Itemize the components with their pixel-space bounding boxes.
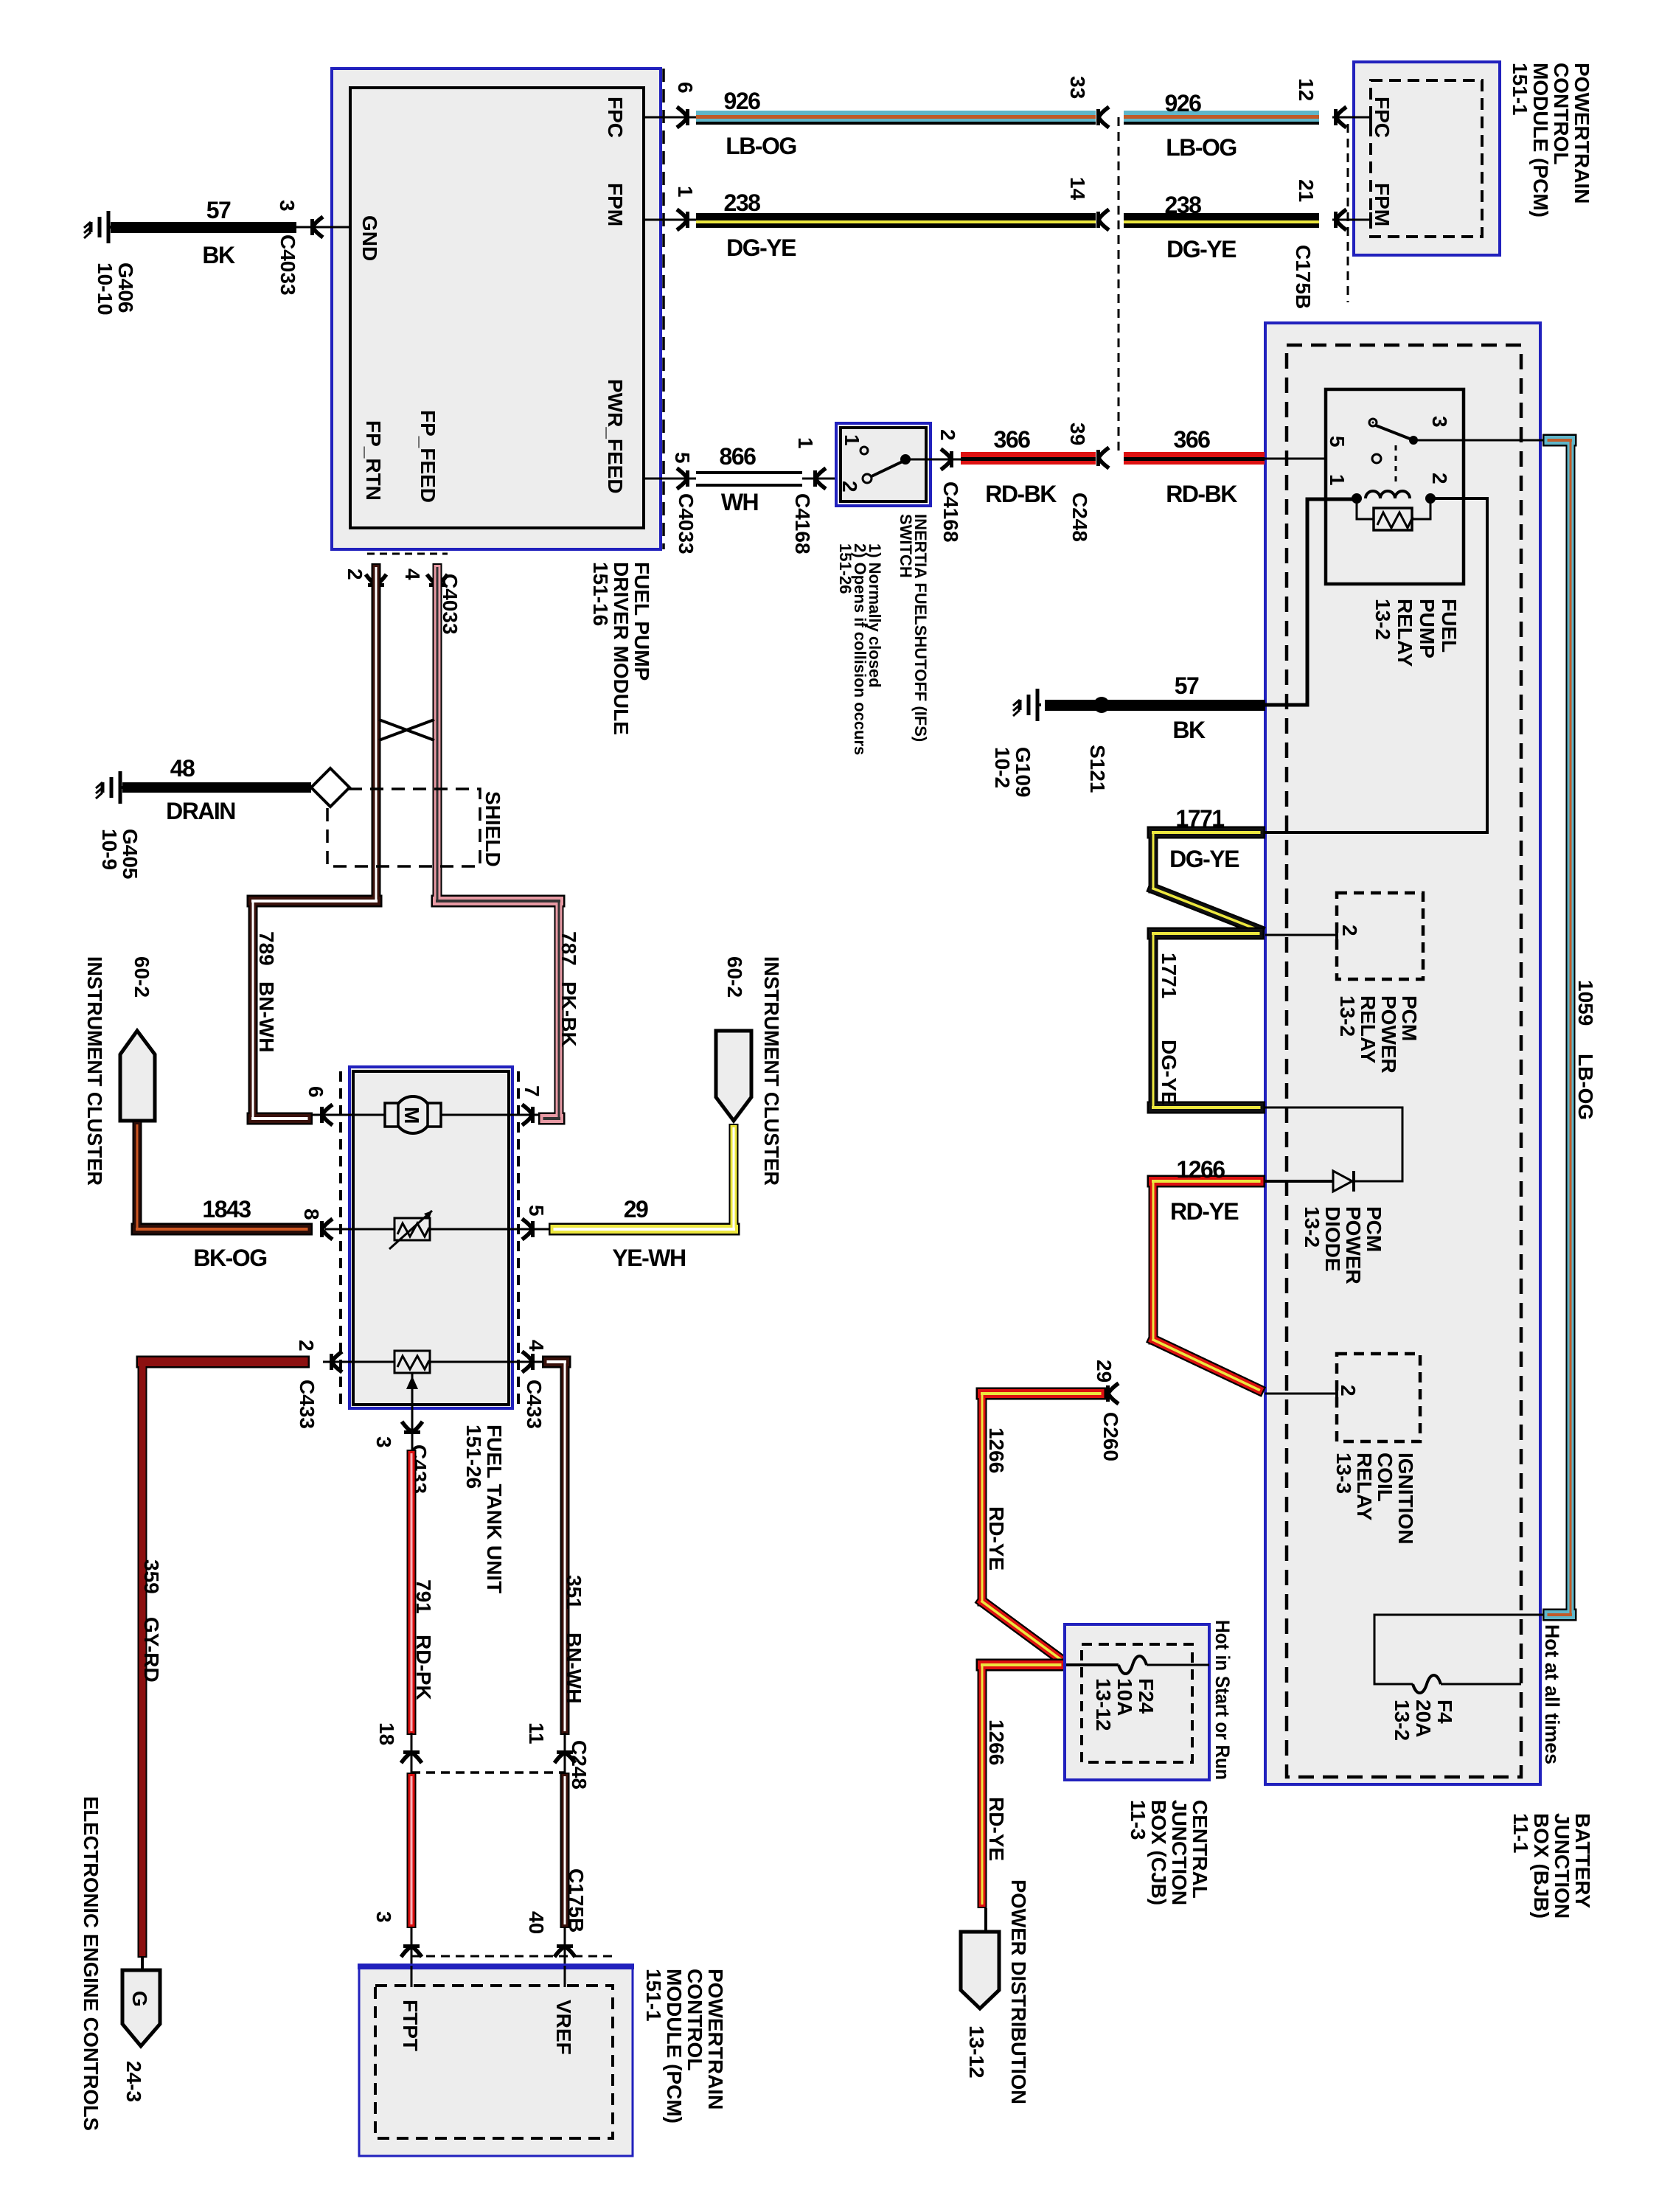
svg-text:Hot at all times: Hot at all times [1541, 1624, 1563, 1764]
PCM power diode [1265, 1180, 1333, 1183]
svg-text:1266: 1266 [985, 1719, 1008, 1765]
tank pin 6 arrow [320, 1105, 333, 1125]
relay coil resistor [1374, 508, 1412, 530]
svg-text:6: 6 [674, 82, 697, 94]
fuel pump relay box [1326, 389, 1464, 584]
svg-text:1: 1 [841, 434, 863, 446]
svg-text:5: 5 [525, 1205, 548, 1217]
svg-text:5: 5 [1326, 436, 1349, 448]
svg-text:2: 2 [936, 429, 959, 441]
drain diamond [311, 768, 349, 807]
wire 1843 BK-OG [133, 1126, 142, 1230]
instrument cluster connector right [716, 1031, 751, 1121]
wire 926 LB-OG segment B [1124, 111, 1319, 122]
FPDM pins 2 and 4 to fuel pump wires [367, 553, 448, 555]
dashed connector line at PCM [1347, 124, 1349, 302]
svg-text:787: 787 [557, 931, 580, 966]
svg-text:BN-WH: BN-WH [255, 981, 278, 1052]
svg-text:60-2: 60-2 [723, 956, 746, 998]
svg-text:C4168: C4168 [939, 481, 962, 543]
pin 1 C4168 arrow [802, 478, 836, 480]
dashed harness line C248/C175B [1118, 117, 1120, 455]
svg-text:238: 238 [724, 189, 761, 216]
wire 791 RD-PK upper [407, 1455, 417, 1731]
dashed connector C248 link [411, 1771, 565, 1774]
svg-text:YE-WH: YE-WH [612, 1245, 685, 1271]
inertia fuel shutoff switch box [836, 423, 931, 506]
svg-text:1843: 1843 [202, 1196, 251, 1222]
PCM pin 12 wire [1332, 116, 1371, 119]
pin 18 C248 arrow [411, 1733, 413, 1773]
wire 926 LB-OG segment A [696, 111, 1096, 122]
wire into relay pin 5 [1265, 458, 1373, 460]
svg-text:866: 866 [720, 443, 757, 470]
svg-text:40: 40 [525, 1911, 548, 1934]
svg-text:7: 7 [521, 1085, 543, 1097]
svg-text:791: 791 [412, 1579, 435, 1614]
pin 29 C260 arrow [1106, 1383, 1119, 1404]
svg-text:3: 3 [372, 1436, 395, 1448]
svg-text:GY-RD: GY-RD [140, 1617, 163, 1683]
svg-text:14: 14 [1066, 177, 1089, 201]
svg-text:1266: 1266 [985, 1427, 1008, 1473]
svg-text:C260: C260 [1099, 1412, 1122, 1461]
pin 3 FTPT arrow [411, 1928, 413, 1966]
svg-text:DG-YE: DG-YE [1166, 236, 1237, 262]
FPM pin 1 wire [644, 219, 696, 221]
svg-text:C4168: C4168 [791, 493, 814, 554]
svg-text:M: M [400, 1107, 423, 1124]
svg-text:3: 3 [1428, 416, 1451, 428]
ground G405 and wire 48 DRAIN [119, 771, 122, 804]
wire 351 BN-WH upper [549, 1356, 566, 1368]
svg-text:1: 1 [674, 186, 697, 198]
svg-text:1: 1 [794, 437, 817, 449]
svg-text:G: G [128, 1991, 151, 2007]
twisted pair symbol [379, 720, 434, 740]
pin 33 connector arrow [1096, 107, 1109, 128]
wire 1266 RD-YE to CJB [982, 1388, 1100, 1400]
svg-text:FPC: FPC [1371, 97, 1394, 138]
svg-text:1059: 1059 [1574, 980, 1597, 1026]
svg-text:DRAIN: DRAIN [166, 798, 235, 824]
fuse F4 [1413, 1675, 1441, 1693]
relay pin 2 wire down to 1771 [1265, 498, 1487, 832]
tank pin 4 arrow [522, 1352, 535, 1372]
svg-text:29: 29 [624, 1196, 648, 1222]
svg-text:RD-YE: RD-YE [1170, 1198, 1239, 1225]
fuel tank pressure sensor [323, 1361, 394, 1363]
wire 1771 DG-YE upper segment [1153, 827, 1259, 839]
fuel tank unit box [339, 1071, 342, 1405]
svg-text:13-12: 13-12 [965, 2025, 988, 2079]
wire 29 YE-WH [729, 1129, 739, 1230]
svg-text:359: 359 [140, 1559, 163, 1594]
fuse F24 [1066, 1663, 1119, 1666]
power distribution connector arrow [984, 1908, 987, 1932]
svg-text:C248: C248 [568, 1740, 591, 1790]
instrument cluster connector left [120, 1031, 155, 1121]
svg-text:4: 4 [401, 568, 424, 580]
svg-text:C433: C433 [523, 1380, 546, 1429]
svg-text:INSTRUMENT CLUSTER: INSTRUMENT CLUSTER [83, 956, 106, 1186]
svg-text:18: 18 [375, 1722, 398, 1745]
svg-text:INSTRUMENT CLUSTER: INSTRUMENT CLUSTER [760, 956, 783, 1186]
tank pin 8 arrow [320, 1219, 333, 1239]
svg-text:RD-YE: RD-YE [985, 1797, 1008, 1861]
svg-text:5: 5 [671, 452, 694, 464]
fuel pump driver module box [332, 69, 661, 549]
svg-text:2: 2 [1428, 473, 1451, 484]
svg-text:351: 351 [563, 1575, 585, 1610]
svg-text:RD-BK: RD-BK [985, 481, 1057, 507]
wire from 1059 to fuse F4 [1374, 1615, 1543, 1684]
svg-text:BK: BK [202, 242, 235, 268]
wire 791 RD-PK lower [407, 1778, 417, 1924]
svg-text:39: 39 [1066, 422, 1089, 445]
svg-text:S121: S121 [1086, 745, 1109, 793]
wire 789 BN-WH [372, 568, 381, 902]
tank pin 7 arrow [522, 1105, 535, 1125]
svg-text:2: 2 [1337, 1385, 1360, 1397]
svg-text:BK: BK [1172, 717, 1206, 743]
dashed connector C175B link [411, 1955, 615, 1958]
svg-text:1: 1 [1326, 474, 1349, 486]
svg-text:FPM: FPM [604, 183, 627, 226]
electronic engine controls connector [141, 1958, 144, 1970]
svg-text:3: 3 [372, 1911, 395, 1923]
svg-text:FPM: FPM [1371, 183, 1394, 226]
svg-text:2: 2 [295, 1340, 318, 1352]
svg-text:DG-YE: DG-YE [726, 234, 796, 261]
svg-text:1771: 1771 [1175, 805, 1224, 832]
svg-text:2: 2 [838, 481, 861, 493]
wire 238 DG-YE segment B [1124, 213, 1319, 228]
wire 1771 to diode loop [1265, 1107, 1402, 1181]
svg-text:LB-OG: LB-OG [1574, 1054, 1597, 1120]
tank pin 2 arrow [330, 1352, 342, 1372]
FPC pin 6 wire [644, 116, 696, 119]
wire 1266 RD-YE inside BJB run [1153, 1175, 1259, 1188]
wire 1266 RD-YE to power distribution [982, 1659, 1060, 1672]
svg-text:6: 6 [305, 1086, 327, 1098]
central junction box CJB [1065, 1624, 1209, 1780]
wire 866 WH [696, 472, 802, 486]
svg-text:RD-BK: RD-BK [1166, 481, 1237, 507]
svg-text:48: 48 [170, 755, 195, 782]
svg-text:1266: 1266 [1176, 1156, 1225, 1183]
svg-text:BN-WH: BN-WH [563, 1632, 585, 1703]
svg-text:2: 2 [344, 568, 366, 580]
relay pin 3 wire to 1059 [1413, 439, 1545, 442]
svg-text:LB-OG: LB-OG [1166, 134, 1237, 161]
svg-text:C175B: C175B [565, 1868, 588, 1933]
svg-text:WH: WH [721, 489, 758, 515]
tank pin 5 arrow [522, 1219, 535, 1239]
wire 366 RD-BK segment B [1124, 452, 1265, 465]
svg-text:926: 926 [724, 88, 761, 114]
svg-text:POWER DISTRIBUTION: POWER DISTRIBUTION [1007, 1879, 1030, 2104]
fuel pump motor [313, 1114, 385, 1116]
svg-text:12: 12 [1295, 78, 1318, 101]
svg-text:GND: GND [358, 215, 381, 261]
connector C4033 dashed line [662, 69, 665, 549]
svg-text:Hot in Start or Run: Hot in Start or Run [1211, 1620, 1234, 1780]
pin 2 C4168 arrow [926, 459, 961, 461]
svg-text:1771: 1771 [1158, 953, 1180, 998]
battery junction box (BJB) outline [1265, 323, 1540, 1784]
svg-text:4: 4 [525, 1340, 548, 1352]
svg-text:FTPT: FTPT [399, 2000, 422, 2051]
svg-text:33: 33 [1066, 76, 1089, 99]
shield dashed box [327, 789, 480, 866]
wire 238 DG-YE segment A [696, 213, 1096, 228]
svg-text:C4033: C4033 [439, 574, 462, 635]
svg-text:926: 926 [1165, 90, 1202, 116]
svg-text:VREF: VREF [552, 2000, 575, 2055]
svg-text:238: 238 [1165, 192, 1202, 218]
tank pin 3 arrow [402, 1422, 422, 1434]
ignition coil relay [1265, 1393, 1337, 1395]
svg-text:11: 11 [525, 1722, 548, 1745]
wire 359 GY-RD [142, 1356, 304, 1368]
svg-text:DG-YE: DG-YE [1169, 846, 1239, 872]
splice S121 [1093, 697, 1110, 713]
ground G406 [107, 211, 111, 243]
svg-text:C248: C248 [1068, 493, 1091, 542]
PCM power relay [1265, 934, 1337, 936]
pin 40 VREF arrow [564, 1928, 566, 1966]
pin 14 connector arrow [1096, 209, 1109, 230]
relay armature dashed link [1395, 445, 1397, 484]
svg-text:789: 789 [255, 931, 278, 966]
svg-text:RD-PK: RD-PK [412, 1635, 435, 1700]
wire 787 PK-BK [433, 568, 442, 902]
ground G109 and wire 57 BK at S121 [1036, 689, 1040, 721]
svg-text:LB-OG: LB-OG [726, 133, 796, 159]
pin 3 C4033 connector arrow [310, 217, 323, 237]
svg-text:3: 3 [276, 200, 299, 212]
PCM top box [1354, 62, 1500, 255]
svg-text:C175B: C175B [1292, 245, 1315, 309]
svg-text:FPC: FPC [604, 97, 627, 138]
svg-text:366: 366 [1174, 426, 1211, 453]
IFS switch blade [872, 460, 905, 476]
svg-text:60-2: 60-2 [131, 956, 153, 998]
svg-text:FP_RTN: FP_RTN [362, 420, 385, 501]
svg-text:DG-YE: DG-YE [1158, 1040, 1180, 1105]
svg-text:29: 29 [1093, 1360, 1116, 1382]
svg-text:21: 21 [1295, 179, 1318, 202]
svg-text:C4033: C4033 [675, 493, 698, 554]
svg-text:57: 57 [1175, 672, 1199, 699]
svg-text:C4033: C4033 [276, 234, 299, 296]
svg-text:PWR_FEED: PWR_FEED [604, 379, 627, 494]
pin 39 C248 arrow [1096, 448, 1109, 468]
svg-text:ELECTRONIC ENGINE CONTROLS: ELECTRONIC ENGINE CONTROLS [80, 1796, 102, 2131]
svg-text:8: 8 [300, 1208, 323, 1220]
PCM bottom box [359, 1966, 633, 2156]
PCM pin 21 wire [1332, 219, 1371, 221]
svg-text:BK-OG: BK-OG [193, 1245, 266, 1271]
svg-text:RD-YE: RD-YE [985, 1506, 1008, 1571]
wire 57 BK to GND [295, 226, 350, 229]
svg-text:2: 2 [1338, 925, 1361, 936]
svg-text:C433: C433 [296, 1380, 319, 1429]
wire 1059 LB-OG [1549, 434, 1571, 447]
svg-text:FP_FEED: FP_FEED [417, 410, 439, 503]
svg-text:G40610-10: G40610-10 [94, 262, 137, 316]
wire 1771 DG-YE lower segment [1153, 928, 1259, 940]
fuel level sender [325, 1228, 394, 1231]
svg-text:PK-BK: PK-BK [557, 981, 580, 1047]
svg-text:366: 366 [994, 426, 1031, 453]
wire 366 RD-BK segment A [961, 452, 1096, 465]
svg-text:24-3: 24-3 [122, 2061, 145, 2102]
PWR_FEED pin 5 wire [644, 478, 696, 480]
wire 351 BN-WH lower [560, 1778, 570, 1924]
svg-text:SHIELD: SHIELD [481, 791, 504, 867]
pin 11 C248 arrow [564, 1733, 566, 1773]
svg-text:57: 57 [206, 197, 231, 223]
